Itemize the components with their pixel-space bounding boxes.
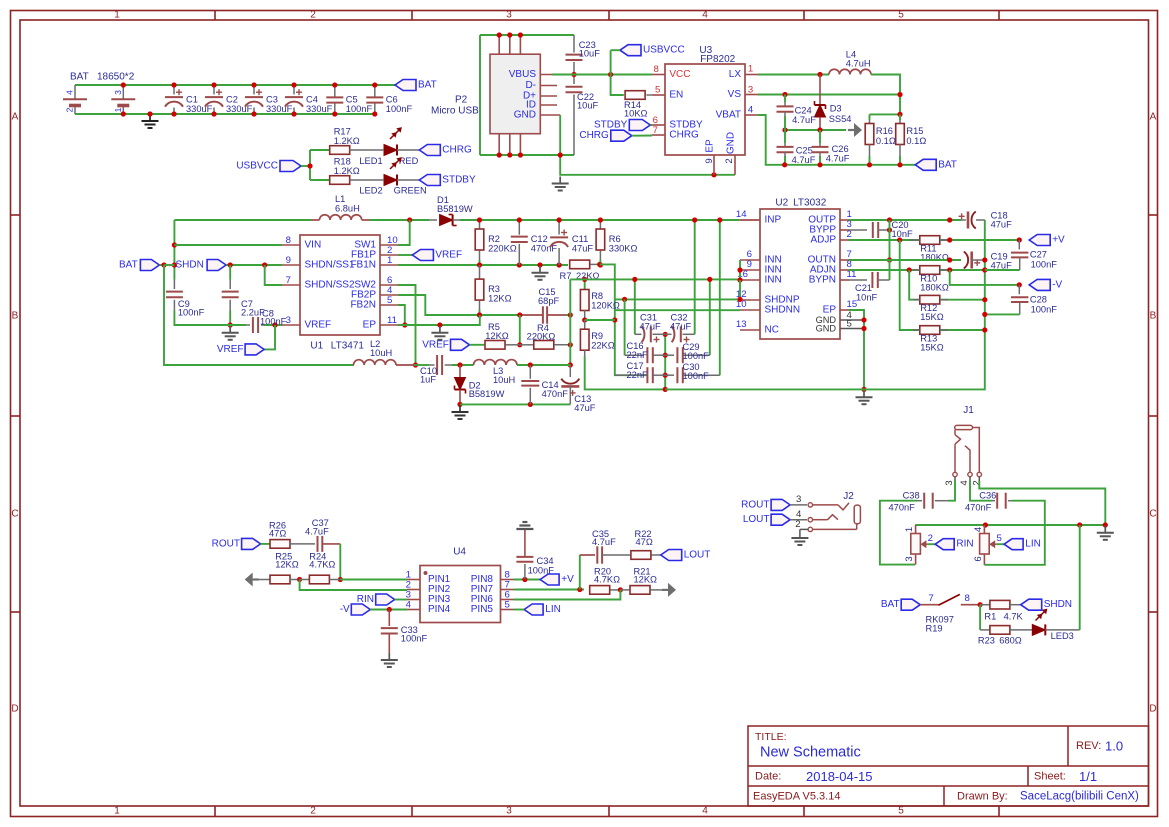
svg-text:ROUT: ROUT [741, 499, 769, 510]
svg-text:RIN: RIN [956, 539, 973, 550]
svg-text:2: 2 [310, 806, 316, 817]
svg-text:SHDNN: SHDNN [765, 305, 801, 316]
svg-text:R17: R17 [334, 127, 351, 137]
svg-text:2: 2 [972, 480, 983, 485]
svg-text:100nF: 100nF [1031, 304, 1058, 314]
svg-text:SS54: SS54 [829, 114, 852, 124]
svg-text:100nF: 100nF [401, 634, 428, 644]
svg-text:1uF: 1uF [420, 375, 436, 385]
svg-text:C34: C34 [537, 556, 554, 566]
svg-text:U1: U1 [310, 340, 323, 351]
svg-text:2: 2 [847, 229, 852, 240]
svg-text:LOUT: LOUT [684, 550, 711, 561]
svg-text:FB2N: FB2N [350, 300, 376, 311]
svg-text:5: 5 [898, 806, 904, 817]
svg-text:VIN: VIN [305, 240, 322, 251]
svg-text:USBVCC: USBVCC [643, 45, 685, 56]
svg-text:1.2KΩ: 1.2KΩ [334, 136, 360, 146]
svg-text:4.7K: 4.7K [1004, 612, 1024, 622]
svg-text:330uF: 330uF [266, 104, 293, 114]
svg-text:Drawn By:: Drawn By: [957, 791, 1008, 803]
svg-text:2: 2 [65, 107, 75, 112]
svg-text:3: 3 [796, 494, 801, 505]
svg-text:GND: GND [726, 132, 737, 154]
svg-text:R8: R8 [591, 291, 603, 301]
svg-text:4.7KΩ: 4.7KΩ [309, 559, 335, 569]
svg-text:C27: C27 [1030, 250, 1047, 260]
svg-text:100nF: 100nF [683, 351, 710, 361]
svg-text:C6: C6 [386, 94, 398, 104]
svg-text:4: 4 [973, 526, 984, 532]
svg-text:ADJP: ADJP [810, 235, 836, 246]
svg-text:1: 1 [387, 255, 392, 266]
svg-text:3: 3 [748, 84, 753, 95]
svg-text:10nF: 10nF [892, 229, 914, 239]
svg-text:C26: C26 [832, 144, 849, 154]
svg-text:100nF: 100nF [683, 371, 710, 381]
svg-text:4.7uF: 4.7uF [792, 115, 816, 125]
svg-text:EN: EN [669, 90, 683, 101]
svg-text:330KΩ: 330KΩ [609, 243, 638, 253]
svg-text:VS: VS [728, 89, 742, 100]
svg-text:EP: EP [705, 139, 716, 153]
svg-text:13: 13 [736, 319, 747, 330]
svg-text:680Ω: 680Ω [999, 636, 1022, 646]
svg-text:8: 8 [965, 593, 970, 604]
svg-text:470nF: 470nF [542, 389, 569, 399]
svg-text:3: 3 [904, 556, 915, 561]
svg-text:5: 5 [505, 599, 510, 610]
svg-text:STDBY: STDBY [442, 175, 476, 186]
svg-text:U4: U4 [453, 547, 466, 558]
svg-text:3: 3 [113, 90, 123, 95]
svg-text:STDBY: STDBY [594, 120, 628, 131]
svg-text:FP8202: FP8202 [700, 54, 735, 65]
svg-text:C38: C38 [903, 490, 920, 500]
svg-text:CHRG: CHRG [669, 130, 699, 141]
svg-text:470nF: 470nF [965, 503, 992, 513]
svg-text:R18: R18 [334, 157, 351, 167]
svg-text:4: 4 [748, 105, 754, 116]
svg-text:EP: EP [363, 320, 377, 331]
svg-text:C2: C2 [226, 94, 238, 104]
svg-text:47uF: 47uF [991, 261, 1013, 271]
svg-text:330uF: 330uF [186, 104, 213, 114]
svg-text:10uF: 10uF [577, 101, 599, 111]
svg-text:A: A [12, 112, 19, 123]
svg-text:0.1Ω: 0.1Ω [876, 136, 896, 146]
svg-text:10nF: 10nF [856, 293, 878, 303]
svg-text:SHDN: SHDN [176, 260, 204, 271]
svg-text:12KΩ: 12KΩ [275, 559, 299, 569]
svg-text:4.7uF: 4.7uF [826, 153, 850, 163]
svg-text:7: 7 [928, 593, 933, 604]
svg-text:BYPN: BYPN [809, 275, 836, 286]
svg-text:R15: R15 [906, 126, 923, 136]
svg-text:1: 1 [748, 64, 753, 75]
svg-text:180KΩ: 180KΩ [920, 282, 949, 292]
svg-text:4.7KΩ: 4.7KΩ [594, 575, 620, 585]
svg-text:9: 9 [704, 158, 715, 163]
svg-text:R16: R16 [876, 126, 893, 136]
svg-text:100nF: 100nF [346, 104, 373, 114]
svg-text:LT3471: LT3471 [331, 340, 365, 351]
svg-text:1: 1 [114, 10, 120, 21]
svg-text:LIN: LIN [1025, 539, 1041, 550]
svg-text:L1: L1 [335, 194, 345, 204]
svg-text:VREF: VREF [435, 250, 462, 261]
svg-text:SHDN/SS1: SHDN/SS1 [305, 260, 355, 271]
svg-text:VREF: VREF [217, 344, 244, 355]
svg-text:22nF: 22nF [627, 350, 649, 360]
svg-text:47uF: 47uF [574, 403, 596, 413]
svg-text:-V: -V [340, 604, 350, 615]
svg-text:5: 5 [847, 318, 852, 329]
svg-text:9: 9 [286, 255, 291, 266]
svg-text:1: 1 [904, 527, 915, 532]
svg-text:New Schematic: New Schematic [760, 745, 861, 761]
svg-text:330uF: 330uF [226, 104, 253, 114]
svg-text:VREF: VREF [422, 340, 449, 351]
svg-text:GREEN: GREEN [394, 186, 427, 196]
svg-text:220KΩ: 220KΩ [488, 243, 517, 253]
svg-text:100nF: 100nF [386, 104, 413, 114]
svg-text:5: 5 [655, 84, 660, 95]
svg-text:LOUT: LOUT [743, 514, 770, 525]
svg-text:11: 11 [387, 315, 397, 326]
svg-text:C1: C1 [186, 94, 198, 104]
svg-text:4.7uF: 4.7uF [592, 537, 616, 547]
svg-text:LT3032: LT3032 [793, 198, 827, 209]
svg-text:C4: C4 [306, 94, 318, 104]
svg-text:R19: R19 [926, 624, 943, 634]
svg-text:8: 8 [286, 235, 291, 246]
svg-text:47Ω: 47Ω [636, 537, 653, 547]
svg-text:47uF: 47uF [991, 220, 1013, 230]
svg-text:SaceLacg(bilibili CenX): SaceLacg(bilibili CenX) [1020, 791, 1139, 803]
svg-text:22KΩ: 22KΩ [591, 341, 615, 351]
svg-text:C28: C28 [1030, 295, 1047, 305]
svg-text:VBAT: VBAT [716, 110, 741, 121]
svg-text:5: 5 [898, 10, 904, 21]
svg-text:4: 4 [65, 90, 75, 95]
svg-text:3: 3 [286, 315, 291, 326]
svg-text:LIN: LIN [545, 604, 561, 615]
svg-text:10uH: 10uH [493, 375, 515, 385]
svg-text:4: 4 [702, 806, 708, 817]
svg-text:6.8uH: 6.8uH [335, 204, 360, 214]
svg-text:470nF: 470nF [531, 243, 558, 253]
svg-text:C21: C21 [855, 283, 872, 293]
svg-text:10uF: 10uF [579, 49, 601, 59]
svg-text:Micro USB: Micro USB [431, 106, 479, 117]
svg-text:2: 2 [724, 158, 735, 163]
svg-text:BAT: BAT [938, 159, 957, 170]
svg-text:A: A [1150, 112, 1157, 123]
svg-text:C5: C5 [346, 94, 358, 104]
svg-text:7: 7 [653, 125, 658, 136]
svg-text:12KΩ: 12KΩ [485, 331, 509, 341]
svg-text:100nF: 100nF [528, 566, 555, 576]
svg-text:5: 5 [387, 295, 392, 306]
svg-text:120KΩ: 120KΩ [591, 301, 620, 311]
svg-text:10uH: 10uH [370, 348, 392, 358]
svg-text:100nF: 100nF [178, 308, 205, 318]
svg-text:+V: +V [1052, 235, 1065, 246]
svg-text:INN: INN [765, 275, 782, 286]
svg-text:47Ω: 47Ω [269, 528, 286, 538]
svg-text:USBVCC: USBVCC [236, 161, 278, 172]
svg-text:C: C [1149, 509, 1156, 520]
svg-text:10KΩ: 10KΩ [624, 109, 648, 119]
svg-text:Sheet:: Sheet: [1034, 771, 1066, 783]
svg-text:CHRG: CHRG [579, 130, 609, 141]
svg-text:LED2: LED2 [359, 186, 382, 196]
svg-text:330uF: 330uF [306, 104, 333, 114]
svg-text:14: 14 [736, 209, 747, 220]
svg-text:4: 4 [959, 480, 970, 486]
svg-text:D: D [11, 704, 18, 715]
svg-text:LX: LX [729, 69, 742, 80]
svg-text:-V: -V [1052, 279, 1062, 290]
svg-text:2: 2 [795, 519, 800, 530]
svg-text:15KΩ: 15KΩ [920, 312, 944, 322]
svg-text:47uF: 47uF [640, 322, 662, 332]
svg-text:SHDN/SS2: SHDN/SS2 [305, 280, 355, 291]
svg-text:1.0: 1.0 [1105, 739, 1123, 754]
svg-text:D3: D3 [830, 104, 842, 114]
svg-text:C: C [11, 509, 18, 520]
svg-text:2018-04-15: 2018-04-15 [806, 769, 873, 784]
svg-text:R9: R9 [591, 331, 603, 341]
svg-text:R1: R1 [984, 612, 996, 622]
svg-text:3: 3 [506, 806, 512, 817]
svg-text:18650*2: 18650*2 [97, 72, 135, 83]
svg-text:LED1: LED1 [359, 156, 382, 166]
svg-text:D: D [1149, 704, 1156, 715]
svg-text:22nF: 22nF [627, 370, 649, 380]
svg-text:J2: J2 [843, 491, 854, 502]
svg-text:5: 5 [997, 533, 1002, 544]
svg-text:PIN5: PIN5 [471, 604, 494, 615]
svg-text:REV:: REV: [1076, 740, 1101, 752]
svg-text:BAT: BAT [70, 72, 89, 83]
svg-text:1.2KΩ: 1.2KΩ [334, 166, 360, 176]
svg-text:EP: EP [823, 305, 837, 316]
svg-text:47uF: 47uF [572, 243, 594, 253]
svg-text:12KΩ: 12KΩ [634, 575, 658, 585]
svg-text:PIN4: PIN4 [428, 604, 451, 615]
svg-text:VREF: VREF [305, 320, 332, 331]
svg-text:EasyEDA V5.3.14: EasyEDA V5.3.14 [753, 791, 840, 803]
svg-text:100nF: 100nF [260, 316, 287, 326]
svg-text:Date:: Date: [755, 771, 781, 783]
svg-text:NC: NC [765, 325, 779, 336]
svg-text:FB1N: FB1N [350, 260, 376, 271]
svg-text:2: 2 [310, 10, 316, 21]
svg-text:1: 1 [113, 107, 123, 112]
svg-text:470nF: 470nF [889, 503, 916, 513]
svg-text:6: 6 [973, 556, 984, 561]
svg-text:B: B [1150, 311, 1157, 322]
svg-text:VBUS: VBUS [509, 69, 537, 80]
svg-text:LED3: LED3 [1051, 631, 1074, 641]
svg-text:4.7uH: 4.7uH [846, 59, 871, 69]
svg-text:+V: +V [561, 574, 574, 585]
svg-text:ROUT: ROUT [212, 538, 240, 549]
svg-text:D-: D- [525, 80, 536, 91]
svg-text:7: 7 [286, 275, 291, 286]
svg-text:BAT: BAT [119, 260, 138, 271]
svg-text:C36: C36 [979, 490, 996, 500]
svg-text:1: 1 [114, 806, 120, 817]
svg-text:R23: R23 [978, 636, 995, 646]
svg-text:GND: GND [514, 110, 536, 121]
svg-text:BAT: BAT [881, 599, 900, 610]
svg-text:47uF: 47uF [670, 322, 692, 332]
svg-text:BAT: BAT [418, 80, 437, 91]
svg-text:C25: C25 [796, 145, 813, 155]
svg-text:68pF: 68pF [538, 296, 560, 306]
svg-text:100nF: 100nF [1031, 260, 1058, 270]
svg-text:P2: P2 [455, 95, 468, 106]
svg-text:4: 4 [702, 10, 708, 21]
svg-text:4.7uF: 4.7uF [792, 155, 816, 165]
svg-text:CHRG: CHRG [442, 145, 472, 156]
svg-text:TITLE:: TITLE: [755, 731, 787, 743]
svg-text:B5819W: B5819W [469, 389, 505, 399]
svg-text:2: 2 [928, 533, 933, 544]
svg-text:VCC: VCC [669, 69, 690, 80]
svg-text:15KΩ: 15KΩ [920, 342, 944, 352]
svg-text:220KΩ: 220KΩ [527, 332, 556, 342]
svg-text:0.1Ω: 0.1Ω [906, 136, 926, 146]
svg-text:1/1: 1/1 [1079, 769, 1097, 784]
svg-text:J1: J1 [963, 405, 974, 416]
svg-text:SHDN: SHDN [1044, 599, 1072, 610]
svg-text:3: 3 [944, 480, 955, 485]
svg-text:8: 8 [653, 64, 658, 75]
svg-text:GND: GND [816, 324, 837, 334]
svg-text:INP: INP [765, 215, 782, 226]
svg-text:B: B [12, 311, 19, 322]
svg-text:U2: U2 [775, 198, 788, 209]
svg-text:C3: C3 [266, 94, 278, 104]
svg-text:3: 3 [506, 10, 512, 21]
svg-text:12KΩ: 12KΩ [488, 293, 512, 303]
svg-text:4.7uF: 4.7uF [305, 526, 329, 536]
svg-text:B5819W: B5819W [437, 204, 473, 214]
